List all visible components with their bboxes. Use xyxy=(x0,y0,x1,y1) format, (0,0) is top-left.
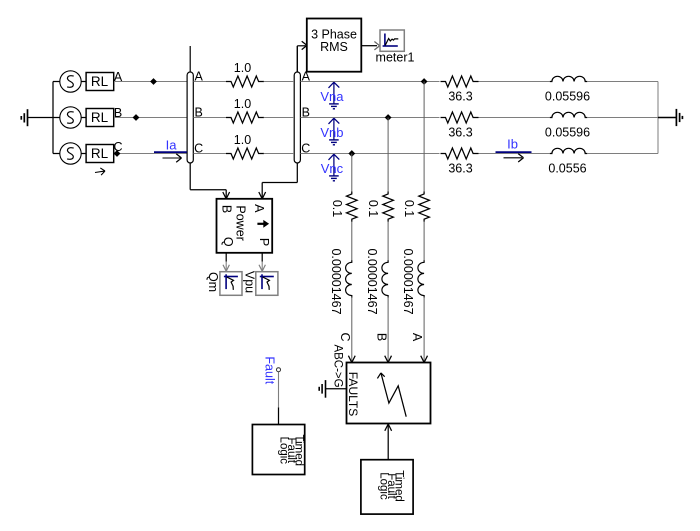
svg-text:RL: RL xyxy=(91,110,109,125)
svg-text:RL: RL xyxy=(91,74,109,89)
svg-text:0.0556: 0.0556 xyxy=(548,162,586,176)
svg-text:36.3: 36.3 xyxy=(448,90,472,104)
svg-text:B: B xyxy=(375,333,389,341)
svg-text:Logic: Logic xyxy=(377,472,389,500)
svg-text:0.00001467: 0.00001467 xyxy=(401,248,415,314)
svg-text:RL: RL xyxy=(91,146,109,161)
svg-text:Qm: Qm xyxy=(206,272,220,292)
svg-text:1.0: 1.0 xyxy=(234,61,251,75)
svg-text:Fault: Fault xyxy=(262,356,276,384)
svg-text:Vnc: Vnc xyxy=(321,161,344,176)
svg-text:0.1: 0.1 xyxy=(330,200,344,217)
svg-text:36.3: 36.3 xyxy=(448,162,472,176)
svg-text:FAULTS: FAULTS xyxy=(346,372,360,416)
svg-text:0.00001467: 0.00001467 xyxy=(329,248,343,314)
svg-text:1.0: 1.0 xyxy=(234,133,251,147)
svg-text:C: C xyxy=(338,332,352,341)
svg-text:Vna: Vna xyxy=(320,89,344,104)
svg-text:Vpu: Vpu xyxy=(243,271,257,293)
svg-text:RMS: RMS xyxy=(320,40,348,54)
svg-text:Ib: Ib xyxy=(507,137,518,152)
svg-text:meter1: meter1 xyxy=(376,51,415,65)
svg-text:Vnb: Vnb xyxy=(320,125,343,140)
svg-text:Ia: Ia xyxy=(166,138,178,153)
svg-text:A: A xyxy=(252,204,266,213)
svg-text:0.1: 0.1 xyxy=(402,200,416,217)
svg-text:A: A xyxy=(410,333,424,342)
svg-text:ABC->G: ABC->G xyxy=(332,344,344,387)
svg-text:1.0: 1.0 xyxy=(234,97,251,111)
svg-text:Power: Power xyxy=(234,205,248,240)
svg-text:P: P xyxy=(257,238,271,246)
svg-text:36.3: 36.3 xyxy=(448,126,472,140)
svg-text:Logic: Logic xyxy=(277,437,289,465)
svg-text:B: B xyxy=(220,205,234,213)
svg-text:0.00001467: 0.00001467 xyxy=(365,248,379,314)
svg-text:0.05596: 0.05596 xyxy=(545,126,590,140)
svg-text:0.1: 0.1 xyxy=(366,200,380,217)
svg-text:Q: Q xyxy=(221,237,235,247)
svg-text:0.05596: 0.05596 xyxy=(545,90,590,104)
